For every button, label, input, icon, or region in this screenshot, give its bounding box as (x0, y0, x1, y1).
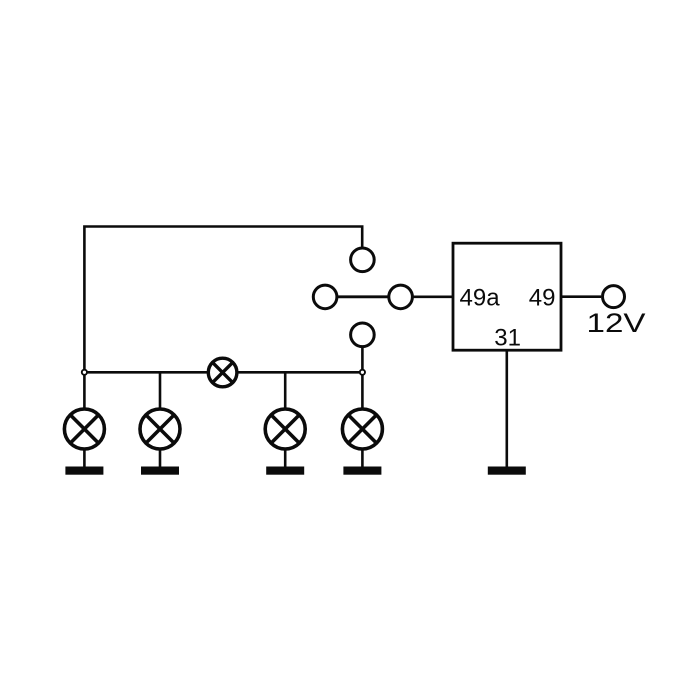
wire: drop to lamp L1 (83, 372, 86, 410)
wire: bottom lamp bus (84, 371, 362, 374)
lamp L5 (pilot lamp, inline on bus) (208, 358, 237, 387)
wire: middle contact to relay terminal 49a (412, 295, 453, 298)
switch contact circle middle (to relay 49a) (389, 285, 413, 309)
svg-text:49: 49 (529, 285, 556, 312)
wire: lamp L4 to ground (361, 448, 364, 467)
wire: drop to lamp L2 (159, 372, 162, 410)
wire: relay 31 to ground (505, 350, 508, 466)
junction node on bus at left rail (82, 370, 87, 375)
wire: bottom contact down to bus junction (361, 347, 364, 373)
lamp L3 (265, 409, 305, 449)
switch contact circle top (terminal toward lamps via top bus) (351, 248, 375, 272)
ground bar under L2 (141, 467, 179, 475)
switch contact circle left (pole) (313, 285, 337, 309)
lamp L1 (64, 409, 104, 449)
ground bar under L4 (343, 467, 381, 475)
wire: drop to lamp L4 (361, 372, 364, 410)
wire: relay 49 to supply terminal (561, 295, 601, 298)
ground bar under relay pin 31 (488, 467, 526, 475)
svg-text:31: 31 (494, 325, 521, 352)
supply terminal circle (603, 286, 625, 308)
svg-text:12V: 12V (587, 308, 646, 338)
svg-text:49a: 49a (460, 285, 501, 312)
wire: drop to lamp L3 (284, 372, 287, 410)
relay box U1 (flasher relay) (453, 243, 561, 350)
ground bar under L3 (266, 467, 304, 475)
lamp L2 (140, 409, 180, 449)
wire: lamp L1 to ground (83, 448, 86, 467)
lamp L4 (342, 409, 382, 449)
switch contact circle bottom (351, 323, 375, 347)
wire: lamp L3 to ground (284, 448, 287, 467)
ground bar under L1 (65, 467, 103, 475)
switch bar between left and middle contact (336, 295, 390, 298)
wire: top bus from left rail to switch contact, with corner down (84, 227, 362, 373)
junction node on bus below switch (360, 370, 365, 375)
wire: lamp L2 to ground (159, 448, 162, 467)
